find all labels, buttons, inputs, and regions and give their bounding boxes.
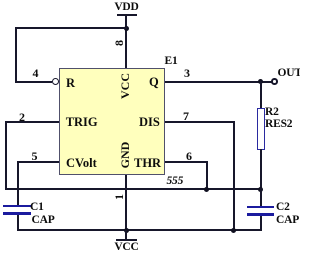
- pin name R: [66, 77, 75, 90]
- part type label 555: [167, 176, 184, 188]
- wire: pin 1 vertical x=126 from IC bottom to bottom rail: [125, 175, 127, 231]
- wire: pin 7 vertical x=233.5 from y=122 to bottom rail: [233, 121, 235, 231]
- terminal OUT circle: [271, 78, 278, 85]
- capacitor C1 top plate: [3, 205, 31, 207]
- pin name Q: [149, 76, 159, 89]
- pin name CVolt: [66, 157, 97, 170]
- pin 5 number label: [32, 150, 38, 162]
- wire: pin 6 vertical x=206.5 from y=162 to y=189: [206, 161, 208, 190]
- capacitor C2 top plate: [247, 206, 274, 208]
- pin name TRIG: [66, 116, 98, 129]
- wire: bottom rail y=229.5 from x=18 to x=261: [17, 229, 262, 231]
- pin 2 number label: [19, 111, 25, 123]
- wire: pin 4 horizontal y=81.5 from x=15 to bubble: [15, 81, 52, 83]
- wire: vertical x=16 from y=28 to y=82: [15, 27, 17, 83]
- designator C1: [30, 202, 44, 214]
- pin name DIS: [139, 116, 160, 129]
- net label OUT: [278, 68, 302, 80]
- net label VCC: [113, 242, 140, 254]
- wire: R2 bottom vertical x=260.5 from y=149.5 to y=189: [260, 149, 262, 189]
- power symbol VCC stub: [125, 230, 127, 241]
- resistor R2 body: [257, 108, 265, 150]
- value CAP: [32, 215, 55, 227]
- wire: horizontal y=28 from x=15 to x=127: [15, 27, 127, 29]
- wire: C2 bottom stub x=260.5 from C2 to bottom rail: [260, 216, 262, 231]
- wire: TRIG/THR bus y=189 from x=6 to x=261: [5, 188, 262, 190]
- pin 6 number label: [186, 150, 192, 162]
- net label VDD: [113, 2, 140, 14]
- pin 7 number label: [183, 110, 189, 122]
- wire: VDD stub vertical x=126 from bar to IC top: [125, 15, 127, 68]
- power symbol VDD bar: [117, 14, 137, 16]
- pin name VCC rotated: [119, 73, 131, 99]
- pin name THR: [134, 157, 161, 170]
- wire: C2 top stub x=260.5 from y=189 to C2: [260, 188, 262, 206]
- wire: pin 6 horizontal y=162 from IC to x=206.5: [165, 161, 208, 163]
- power symbol VCC bar: [116, 239, 137, 241]
- pin 1 number label rotated: [113, 194, 125, 200]
- wire: pin 2 horizontal y=122 from x=6 to IC: [5, 121, 59, 123]
- wire: pin 7 horizontal y=122 from IC to x=233.5: [165, 121, 235, 123]
- wire: C1 bottom stub x=18 to bottom rail: [17, 215, 19, 231]
- pin 4 inversion bubble: [52, 78, 59, 85]
- node: junction dot at (260.5,189): [258, 187, 263, 192]
- wire: pin 3 horizontal y=81.5 from IC to x=272: [165, 81, 272, 83]
- capacitor C1 bottom plate: [3, 212, 31, 214]
- wire: R2 top vertical x=260.5 from y=81.5 to resistor: [260, 81, 262, 109]
- capacitor C2 bottom plate: [247, 213, 274, 215]
- node: junction dot at (126,229.5): [124, 228, 129, 233]
- pin 4 number label: [33, 67, 39, 79]
- node: junction dot at (126,28): [124, 26, 129, 31]
- node: junction dot at (233.5,229.5): [231, 228, 236, 233]
- wire: vertical x=6 from y=122 to y=189: [5, 121, 7, 190]
- pin 3 number label: [184, 67, 190, 79]
- wire: pin 5 horizontal y=162 from x=18 to IC: [17, 161, 59, 163]
- node: junction dot at (206.5,189): [204, 187, 209, 192]
- designator E1: [165, 56, 178, 68]
- pin name GND rotated: [119, 141, 131, 168]
- pin 8 number label rotated: [113, 40, 125, 46]
- designator C2: [276, 202, 290, 214]
- node: junction dot at (260.5,81.5): [258, 79, 263, 84]
- value RES2: [265, 119, 292, 131]
- op-amp U? : 555 IC body: [59, 68, 165, 175]
- designator R2: [265, 107, 279, 119]
- value CAP: [276, 215, 299, 227]
- wire: vertical x=18 from y=162 to C1 top: [17, 161, 19, 205]
